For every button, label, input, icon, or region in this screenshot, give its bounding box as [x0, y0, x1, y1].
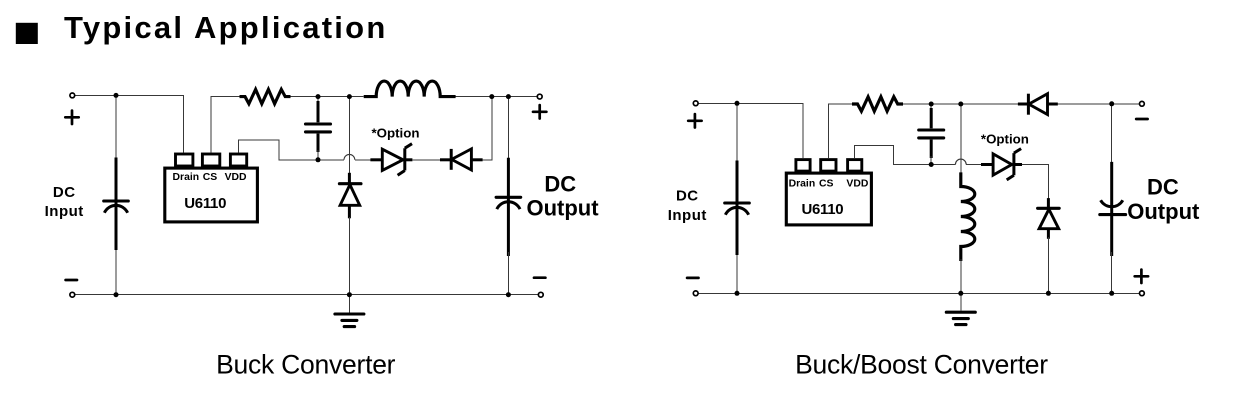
svg-text:Output: Output — [526, 195, 599, 220]
svg-text:Buck Converter: Buck Converter — [216, 350, 396, 380]
svg-text:CS: CS — [203, 172, 218, 183]
svg-text:Buck/Boost Converter: Buck/Boost Converter — [795, 349, 1048, 379]
svg-text:Input: Input — [668, 207, 707, 224]
svg-text:CS: CS — [819, 178, 834, 189]
svg-text:DC: DC — [53, 184, 76, 201]
svg-text:Input: Input — [45, 203, 84, 220]
svg-text:VDD: VDD — [225, 172, 247, 183]
svg-text:Typical Application: Typical Application — [64, 10, 388, 45]
svg-text:Drain: Drain — [789, 178, 816, 189]
svg-text:Output: Output — [1127, 199, 1200, 224]
svg-text:U6110: U6110 — [801, 201, 843, 218]
svg-text:Drain: Drain — [173, 172, 200, 183]
svg-text:U6110: U6110 — [184, 195, 226, 212]
svg-text:DC: DC — [1147, 175, 1179, 200]
svg-text:DC: DC — [544, 171, 576, 196]
svg-text:DC: DC — [676, 188, 699, 205]
svg-text:*Option: *Option — [371, 125, 419, 140]
svg-text:VDD: VDD — [846, 178, 868, 189]
svg-text:*Option: *Option — [981, 131, 1029, 146]
